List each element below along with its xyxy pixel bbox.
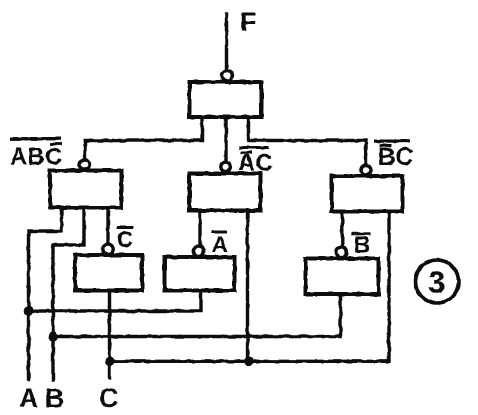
wire U3 input2 to line C <box>246 211 249 362</box>
wire U2 input2 to line B <box>53 208 84 381</box>
figure number circle 3 <box>416 260 459 303</box>
label B-bar <box>352 232 371 258</box>
label BC-bar <box>374 140 414 172</box>
svg-text:C: C <box>117 226 134 252</box>
svg-text:C: C <box>99 383 119 413</box>
wire U2 input1 to line A <box>29 208 62 380</box>
label ABC-bar <box>10 137 62 171</box>
wire line C from U5 input down <box>108 291 111 379</box>
junction dot C2 <box>244 357 254 367</box>
gate U3 NAND body (AC) <box>190 174 261 211</box>
label AC-bar <box>238 146 273 177</box>
input label B <box>45 383 65 413</box>
node F label <box>240 7 257 37</box>
wire U4 input1 to U7 output <box>341 212 344 247</box>
gate U3 output bubble <box>221 162 231 172</box>
gate U1 NAND output bubble <box>222 71 232 81</box>
svg-text:B: B <box>354 232 371 258</box>
wire U1 input2 to U3 output <box>224 117 227 162</box>
svg-text:A: A <box>19 383 39 413</box>
wire A net horizontal to U6 input <box>29 291 202 312</box>
svg-text:ABC: ABC <box>10 144 62 171</box>
gate U1 NAND body <box>190 82 262 117</box>
wire B net horizontal to U7 input <box>53 294 341 337</box>
wire C net horizontal to U4 input <box>110 212 389 362</box>
label C-bar <box>117 226 134 252</box>
svg-text:3: 3 <box>428 265 445 300</box>
label A-bar <box>211 231 228 258</box>
wire U2 input3 to U5 output <box>106 208 109 245</box>
input label C <box>99 383 119 413</box>
svg-text:F: F <box>240 7 257 37</box>
input label A <box>19 383 39 413</box>
junction dot C <box>105 357 115 367</box>
gate U5 output bubble <box>103 244 113 254</box>
svg-text:BC: BC <box>378 143 414 171</box>
gate U6 output bubble <box>193 246 203 256</box>
junction dot A <box>24 306 34 316</box>
gate U2 NAND body (ABC) <box>50 171 122 208</box>
gate U5 inverter body (Cbar) <box>75 255 142 291</box>
junction dot B <box>48 332 58 342</box>
svg-text:B: B <box>45 383 65 413</box>
gate U7 inverter body (Bbar) <box>306 259 379 295</box>
gate U7 output bubble <box>336 247 346 257</box>
wire U1 input1 to U2 output <box>85 117 202 159</box>
gate U2 output bubble <box>80 160 90 170</box>
gate U6 inverter body (Abar) <box>165 257 235 291</box>
wire F lead <box>225 14 228 70</box>
gate U4 NAND body (BC) <box>332 176 403 212</box>
svg-text:A: A <box>212 232 229 258</box>
wire U1 input3 to U4 output <box>249 117 367 165</box>
gate U4 output bubble <box>361 165 371 175</box>
wire U3 input1 to U6 output <box>198 211 201 247</box>
